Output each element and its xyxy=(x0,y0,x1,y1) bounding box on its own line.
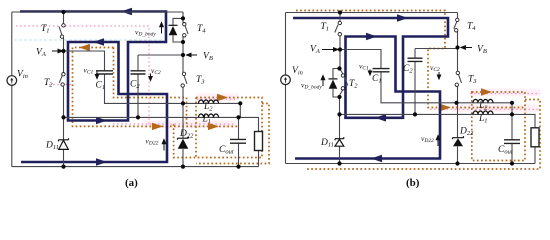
svg-text:VB: VB xyxy=(477,45,487,56)
svg-text:T4: T4 xyxy=(467,22,476,33)
svg-text:VB: VB xyxy=(203,52,213,63)
svg-text:Cout: Cout xyxy=(498,145,513,156)
svg-text:vC1: vC1 xyxy=(84,66,94,76)
svg-text:Vin: Vin xyxy=(17,70,28,81)
svg-text:(b): (b) xyxy=(406,177,420,189)
svg-text:D11: D11 xyxy=(320,138,334,149)
svg-text:vC2: vC2 xyxy=(430,63,440,73)
svg-text:VA: VA xyxy=(310,45,320,56)
svg-text:C1: C1 xyxy=(96,81,106,92)
svg-text:Cout: Cout xyxy=(219,145,234,156)
svg-text:C2: C2 xyxy=(403,64,413,75)
svg-text:L1: L1 xyxy=(478,114,488,125)
svg-text:T1: T1 xyxy=(41,24,50,35)
svg-text:vD_body: vD_body xyxy=(301,81,322,91)
svg-text:C1: C1 xyxy=(372,74,382,85)
svg-text:T2: T2 xyxy=(44,78,53,89)
svg-text:D11: D11 xyxy=(45,141,59,152)
svg-text:vC2: vC2 xyxy=(151,66,161,76)
svg-text:vD_body: vD_body xyxy=(135,28,156,38)
svg-text:L1: L1 xyxy=(202,115,212,126)
svg-text:T3: T3 xyxy=(468,75,477,86)
svg-text:C2: C2 xyxy=(130,80,140,91)
svg-text:T1: T1 xyxy=(321,22,330,33)
svg-text:T4: T4 xyxy=(197,24,206,35)
svg-text:vD22: vD22 xyxy=(146,137,159,147)
svg-text:D22: D22 xyxy=(459,127,474,138)
svg-text:(a): (a) xyxy=(125,177,138,189)
svg-text:T3: T3 xyxy=(196,75,205,86)
svg-text:T2: T2 xyxy=(349,79,358,90)
svg-text:Vin: Vin xyxy=(292,66,303,77)
svg-text:vC1: vC1 xyxy=(359,62,369,72)
svg-text:vD22: vD22 xyxy=(421,134,434,144)
svg-text:D22: D22 xyxy=(179,129,194,140)
svg-text:VA: VA xyxy=(36,48,46,59)
